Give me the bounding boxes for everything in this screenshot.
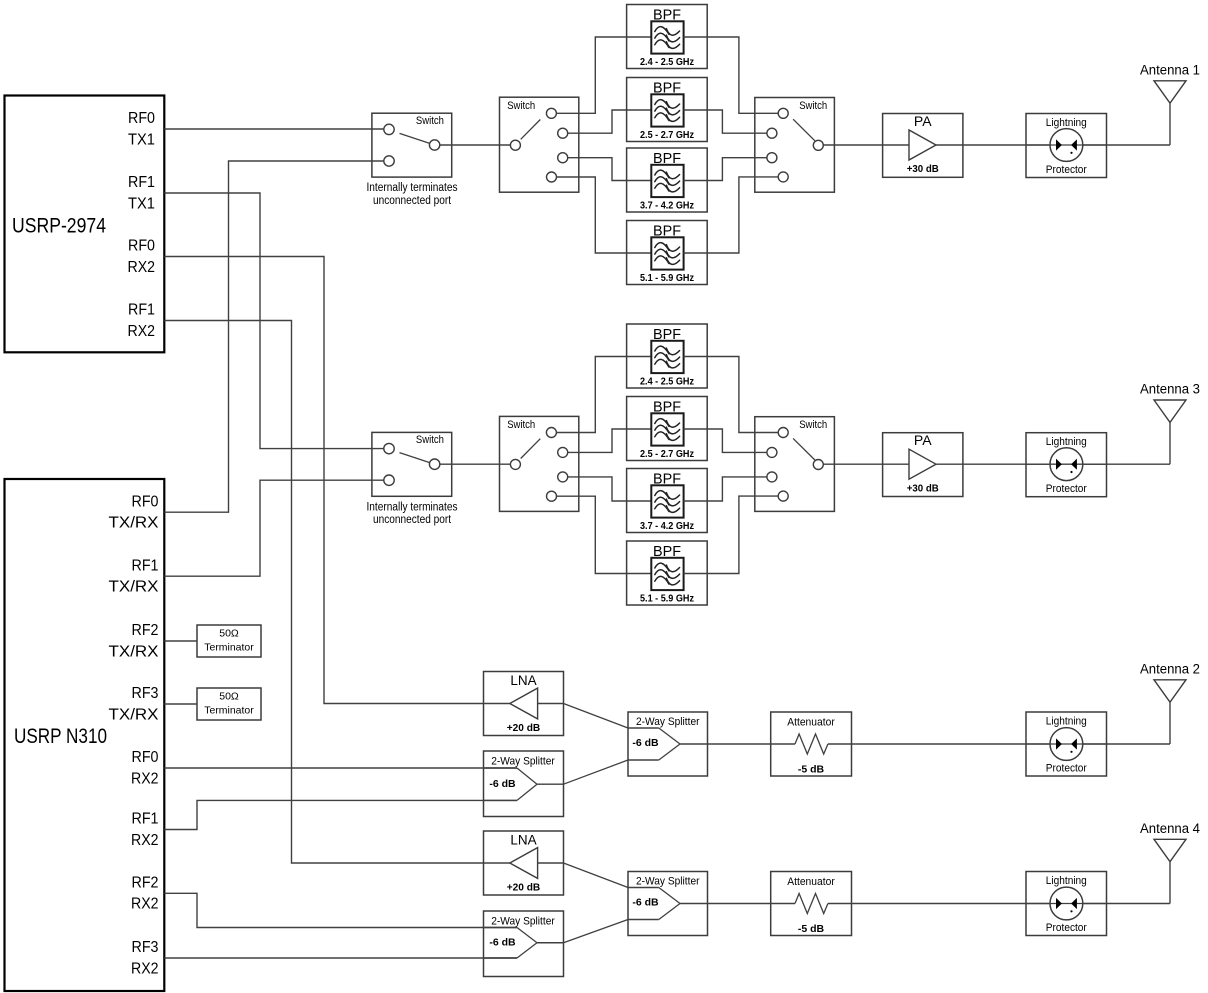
- svg-text:RF1: RF1: [132, 811, 159, 828]
- svg-text:+30 dB: +30 dB: [907, 482, 939, 494]
- svg-text:Internally terminates: Internally terminates: [367, 501, 458, 513]
- svg-text:TX/RX: TX/RX: [109, 515, 160, 532]
- svg-text:USRP N310: USRP N310: [14, 724, 107, 748]
- svg-text:Protector: Protector: [1046, 922, 1087, 934]
- svg-text:Switch: Switch: [507, 419, 535, 431]
- svg-text:2-Way Splitter: 2-Way Splitter: [636, 875, 700, 887]
- svg-text:+20 dB: +20 dB: [507, 722, 541, 734]
- svg-text:50Ω: 50Ω: [219, 691, 239, 703]
- svg-text:Lightning: Lightning: [1046, 117, 1087, 129]
- svg-text:2-Way Splitter: 2-Way Splitter: [491, 916, 555, 928]
- svg-text:RF0: RF0: [132, 493, 159, 510]
- svg-text:Switch: Switch: [507, 100, 535, 112]
- svg-text:-6 dB: -6 dB: [489, 778, 516, 790]
- svg-text:RF2: RF2: [132, 622, 159, 639]
- svg-text:2.4 - 2.5 GHz: 2.4 - 2.5 GHz: [640, 56, 694, 68]
- svg-text:RF0: RF0: [128, 110, 155, 127]
- svg-text:Terminator: Terminator: [204, 705, 254, 717]
- svg-text:Antenna 1: Antenna 1: [1140, 62, 1200, 77]
- svg-text:TX1: TX1: [128, 195, 155, 212]
- svg-text:Antenna 4: Antenna 4: [1140, 821, 1200, 836]
- svg-text:Lightning: Lightning: [1046, 436, 1087, 448]
- svg-text:Protector: Protector: [1046, 164, 1087, 176]
- svg-text:2-Way Splitter: 2-Way Splitter: [636, 716, 700, 728]
- svg-text:2.4 - 2.5 GHz: 2.4 - 2.5 GHz: [640, 376, 694, 388]
- svg-text:PA: PA: [914, 432, 932, 448]
- svg-text:RF1: RF1: [128, 174, 155, 191]
- svg-text:5.1 - 5.9 GHz: 5.1 - 5.9 GHz: [640, 272, 694, 284]
- svg-text:Switch: Switch: [799, 100, 827, 112]
- svg-text:RX2: RX2: [128, 323, 156, 340]
- svg-text:RF2: RF2: [132, 874, 159, 891]
- svg-text:5.1 - 5.9 GHz: 5.1 - 5.9 GHz: [640, 593, 694, 605]
- svg-text:Switch: Switch: [416, 115, 444, 127]
- svg-text:RX2: RX2: [131, 960, 159, 977]
- svg-text:RF1: RF1: [132, 557, 159, 574]
- svg-text:+20 dB: +20 dB: [507, 882, 541, 894]
- svg-text:3.7 - 4.2 GHz: 3.7 - 4.2 GHz: [640, 200, 694, 212]
- svg-text:Lightning: Lightning: [1046, 875, 1087, 887]
- svg-text:LNA: LNA: [510, 673, 536, 688]
- svg-text:unconnected port: unconnected port: [373, 514, 452, 526]
- svg-text:RX2: RX2: [131, 832, 159, 849]
- svg-text:Antenna 3: Antenna 3: [1140, 382, 1200, 397]
- svg-text:RF0: RF0: [132, 749, 159, 766]
- svg-text:Protector: Protector: [1046, 763, 1087, 775]
- svg-text:+30 dB: +30 dB: [907, 163, 939, 175]
- svg-text:USRP-2974: USRP-2974: [12, 214, 106, 238]
- svg-text:Switch: Switch: [416, 434, 444, 446]
- svg-text:3.7 - 4.2 GHz: 3.7 - 4.2 GHz: [640, 520, 694, 532]
- svg-text:TX/RX: TX/RX: [109, 643, 160, 660]
- svg-text:RF1: RF1: [128, 302, 155, 319]
- svg-text:2.5 - 2.7 GHz: 2.5 - 2.7 GHz: [640, 129, 694, 141]
- svg-text:TX/RX: TX/RX: [109, 579, 160, 596]
- svg-text:TX/RX: TX/RX: [109, 706, 160, 723]
- svg-text:TX1: TX1: [128, 131, 155, 148]
- svg-text:Protector: Protector: [1046, 483, 1087, 495]
- svg-text:RF0: RF0: [128, 238, 155, 255]
- svg-text:unconnected port: unconnected port: [373, 195, 452, 207]
- svg-text:RX2: RX2: [128, 259, 156, 276]
- svg-text:RF3: RF3: [132, 939, 159, 956]
- svg-text:LNA: LNA: [510, 833, 536, 848]
- svg-text:-5 dB: -5 dB: [798, 923, 825, 935]
- svg-text:50Ω: 50Ω: [219, 628, 239, 640]
- svg-text:RX2: RX2: [131, 770, 159, 787]
- svg-text:Switch: Switch: [799, 419, 827, 431]
- svg-text:-6 dB: -6 dB: [489, 936, 516, 948]
- svg-text:RX2: RX2: [131, 896, 159, 913]
- svg-text:PA: PA: [914, 113, 932, 129]
- svg-text:2-Way Splitter: 2-Way Splitter: [491, 756, 555, 768]
- svg-text:-6 dB: -6 dB: [632, 897, 659, 909]
- svg-text:Terminator: Terminator: [204, 642, 254, 654]
- svg-text:RF3: RF3: [132, 685, 159, 702]
- svg-text:Attenuator: Attenuator: [787, 716, 835, 728]
- svg-text:Attenuator: Attenuator: [787, 876, 835, 888]
- svg-text:Antenna 2: Antenna 2: [1140, 661, 1200, 676]
- svg-text:-5 dB: -5 dB: [798, 764, 825, 776]
- svg-text:Internally terminates: Internally terminates: [367, 182, 458, 194]
- svg-text:-6 dB: -6 dB: [632, 737, 659, 749]
- svg-text:Lightning: Lightning: [1046, 715, 1087, 727]
- svg-text:2.5 - 2.7 GHz: 2.5 - 2.7 GHz: [640, 448, 694, 460]
